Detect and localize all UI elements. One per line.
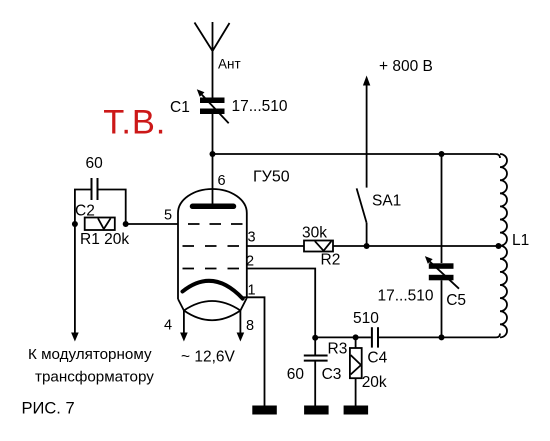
svg-text:~ 12,6V: ~ 12,6V (181, 349, 236, 366)
wire top bus to coil L1 (213, 154, 501, 158)
resistor R3 (20k) (350, 337, 362, 405)
wire pin 2 down to bottom bus (247, 269, 315, 338)
resistor R2 (30k) (304, 241, 333, 252)
svg-text:30k: 30k (302, 225, 327, 242)
capacitor C1 (variable, 17...510) (197, 89, 229, 123)
node right of R1 (123, 221, 129, 227)
svg-text:5: 5 (164, 208, 172, 224)
wire grid3 to R2 (247, 245, 304, 247)
wire R2 to L1 tap (333, 245, 499, 247)
capacitor C5 (variable, 17...510) (425, 154, 459, 289)
node C5 bottom (439, 334, 445, 340)
grid pin 5 (dashed) (188, 223, 245, 225)
resistor R1 (20k) (85, 218, 115, 231)
svg-text:C4: C4 (367, 350, 387, 367)
svg-text:R3: R3 (328, 341, 348, 358)
wire C5 bottom (441, 280, 443, 337)
ground (C3) (304, 406, 329, 415)
tube U1 ГУ50 envelope (178, 189, 247, 320)
svg-text:60: 60 (86, 155, 104, 172)
capacitor C2 plates (91, 178, 93, 200)
svg-text:510: 510 (353, 310, 379, 327)
capacitor C4 (510) (356, 327, 442, 347)
svg-text:3: 3 (248, 230, 256, 246)
svg-text:L1: L1 (512, 232, 529, 249)
node SA1 bottom (364, 243, 370, 249)
inductor L1 coil (500, 154, 507, 337)
svg-text:C3: C3 (322, 366, 342, 383)
node junction C1 / top bus (210, 151, 216, 157)
svg-text:20k: 20k (362, 374, 387, 391)
wire bottom bus C3 to R3 (315, 336, 355, 338)
pin 8 filament lead with arrow (239, 311, 241, 335)
svg-text:C5: C5 (446, 292, 466, 309)
svg-text:60: 60 (287, 366, 305, 383)
svg-text:Ант: Ант (218, 57, 241, 72)
svg-text:трансформатору: трансформатору (35, 369, 154, 386)
wire to modulator transformer with arrow (74, 224, 76, 334)
node C3 top (312, 335, 318, 341)
antenna (195, 22, 230, 98)
svg-text:4: 4 (164, 318, 172, 334)
svg-text:R2: R2 (321, 252, 341, 269)
svg-text:Т.В.: Т.В. (103, 104, 166, 142)
svg-text:2: 2 (246, 254, 254, 270)
svg-text:К модуляторному: К модуляторному (28, 346, 152, 363)
svg-text:+ 800 В: + 800 В (379, 58, 433, 75)
node C5 top (439, 151, 445, 157)
anode (plate) bar (193, 204, 234, 210)
svg-text:ГУ50: ГУ50 (253, 168, 290, 185)
node R3 top (353, 334, 359, 340)
grid pin 2 (dashed) (183, 268, 240, 270)
svg-text:C1: C1 (170, 99, 190, 116)
wire pin 5 lead (126, 223, 178, 225)
grid pin 3 (dashed) (183, 245, 240, 247)
svg-text:R1 20k: R1 20k (80, 231, 129, 248)
svg-text:6: 6 (218, 173, 226, 189)
svg-text:SA1: SA1 (372, 193, 401, 210)
cathode arc (183, 281, 243, 299)
wire bottom bus to coil (442, 334, 501, 338)
svg-text:1: 1 (248, 283, 256, 299)
node L1 tap (496, 243, 502, 249)
capacitor C3 (60) (304, 338, 328, 406)
svg-text:РИС. 7: РИС. 7 (22, 400, 75, 418)
wire pin 1 to ground (243, 297, 265, 405)
ground (pin 1) (252, 406, 276, 415)
pin 4 filament lead with arrow (183, 311, 185, 335)
switch SA1 (357, 76, 371, 247)
ground (R3) (344, 406, 369, 415)
wire C1 to anode pin 6 (212, 114, 214, 206)
capacitor C2 (60) wires (75, 190, 126, 225)
svg-text:17...510: 17...510 (378, 288, 434, 305)
node left of R1 (72, 221, 78, 227)
svg-text:8: 8 (246, 318, 254, 334)
svg-text:17...510: 17...510 (232, 98, 288, 115)
